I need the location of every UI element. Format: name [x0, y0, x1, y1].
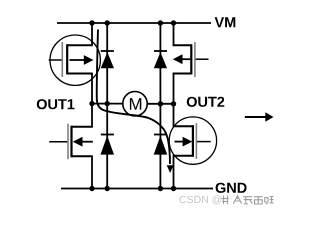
- wire Q1 source to OUT1 to Q3 drain: [91, 74, 93, 128]
- circle marker around Q4 (active device): [169, 117, 216, 164]
- wire D2/D4 branch (VM to GND through diodes): [159, 23, 161, 189]
- junction OUT2 right: [171, 101, 176, 106]
- node GND label: [216, 183, 247, 193]
- junction top rail left diode: [105, 20, 110, 25]
- diode D1 top-left flyback diode: [101, 51, 114, 68]
- motor direction arrow: [245, 112, 274, 122]
- junction GND rail right diode: [158, 186, 163, 191]
- diode D2 top-right flyback diode: [154, 51, 167, 68]
- node VM label: [215, 17, 236, 27]
- diode D4 bottom-right flyback diode: [154, 135, 168, 155]
- junction GND rail left FET: [89, 186, 94, 191]
- current flow path through Q1, motor and Q4: [97, 30, 174, 174]
- node OUT1 label: [37, 99, 75, 109]
- junction top rail left FET: [89, 20, 94, 25]
- watermark: [180, 195, 274, 204]
- motor M: [123, 92, 147, 116]
- wire Q2 source to OUT2 to Q4 drain: [173, 74, 175, 127]
- circle marker around Q1 (active device): [50, 35, 100, 85]
- wire GND bottom rail: [61, 188, 213, 190]
- wire OUT2 segment: [147, 103, 174, 105]
- node OUT2 label: [187, 97, 225, 107]
- transistor Q1 top-left high-side FET: [49, 42, 94, 77]
- wire OUT1 segment: [92, 103, 123, 105]
- transistor Q2 top-right high-side FET: [173, 42, 209, 77]
- diode D3 bottom-left flyback diode: [101, 135, 115, 155]
- wire VM to Q2 drain: [173, 23, 175, 45]
- junction GND rail right FET: [171, 186, 176, 191]
- wire VM to Q1 drain: [91, 23, 93, 45]
- junction top rail right FET: [171, 20, 176, 25]
- wire Q3 source to GND: [91, 156, 93, 189]
- junction GND rail left diode: [105, 186, 110, 191]
- transistor Q4 bottom-right low-side FET: [173, 123, 211, 159]
- junction top rail right diode: [158, 20, 163, 25]
- junction OUT2 left: [158, 101, 163, 106]
- transistor Q3 bottom-left low-side FET: [49, 124, 93, 160]
- junction OUT1 right: [105, 101, 110, 106]
- wire VM top rail: [57, 22, 211, 24]
- wire D1/D3 branch (VM to GND through diodes): [106, 23, 108, 189]
- junction OUT1 left: [89, 101, 94, 106]
- wire Q4 source to GND: [173, 156, 175, 189]
